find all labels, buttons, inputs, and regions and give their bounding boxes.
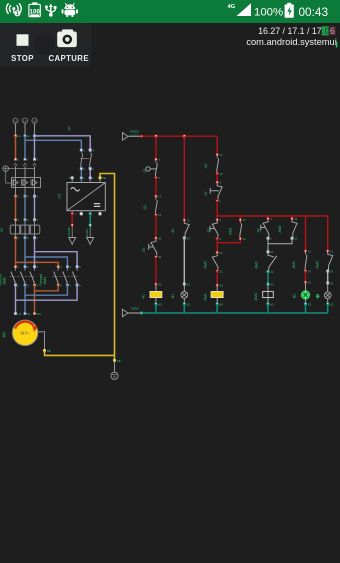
wire col1 seg1	[155, 136, 157, 159]
svg-text:A1: A1	[270, 282, 274, 286]
node K1.13b	[216, 153, 218, 155]
svg-text:1: 1	[83, 148, 85, 152]
node H1.X2	[183, 303, 185, 305]
svg-text:N: N	[69, 176, 71, 180]
svg-text:13: 13	[187, 218, 190, 222]
svg-text:-S4: -S4	[256, 228, 260, 233]
V1 pin PE	[99, 177, 101, 179]
svg-text:-Q1: -Q1	[143, 205, 147, 211]
svg-text:U1: U1	[18, 312, 22, 316]
node S1.4	[155, 177, 157, 179]
svg-text:X1: X1	[308, 281, 312, 285]
svg-text:2: 2	[83, 167, 85, 171]
node K1.A2	[155, 303, 157, 305]
wire L3 drop	[34, 136, 36, 160]
V1 pin nc1	[80, 213, 82, 215]
lamp H2 on	[292, 282, 310, 304]
node Q1 pin5	[33, 158, 35, 160]
junction bus1 col2	[183, 135, 186, 138]
node K1.14a	[183, 237, 185, 239]
status bar background	[0, 0, 340, 23]
svg-text:M3~: M3~	[21, 331, 30, 336]
svg-text:W1: W1	[37, 312, 42, 316]
node K1.14b	[216, 172, 218, 174]
svg-text:-: -	[92, 212, 93, 216]
svg-text:L2: L2	[27, 134, 30, 138]
node K1.13a	[183, 219, 185, 221]
contact KM2 seal-in	[278, 220, 297, 237]
node bus4 start	[140, 312, 142, 314]
node Q2 pin4	[89, 167, 91, 169]
node PE.1	[113, 359, 115, 361]
fuse F1	[0, 220, 40, 238]
node S2.3	[216, 181, 218, 183]
contact KM1 seal-in	[228, 221, 241, 238]
wire col3 seg1	[216, 174, 218, 183]
wire to F1 p3	[34, 196, 36, 220]
svg-text:-K1: -K1	[171, 228, 175, 233]
svg-text:L1: L1	[18, 134, 21, 138]
svg-text:X2: X2	[330, 302, 334, 306]
V1 pin N	[71, 177, 73, 179]
wire col2 seg2	[183, 238, 185, 284]
svg-text:-Q2: -Q2	[67, 126, 71, 131]
V1 pin L+	[71, 213, 73, 215]
node Q2 pin2	[80, 167, 82, 169]
node KM2 out2	[14, 284, 16, 286]
wire col3 to bus4	[216, 304, 218, 313]
svg-text:13: 13	[308, 249, 311, 253]
wire L2 drop	[24, 136, 26, 160]
svg-text:13: 13	[158, 195, 161, 199]
wire to F1 p1	[15, 196, 17, 220]
wire bus1 24VDC	[142, 135, 217, 137]
link arrow symbol plus	[67, 226, 76, 244]
svg-text:L: L	[83, 176, 85, 180]
wire bus3 seal-in	[217, 239, 240, 243]
node KM2.13	[291, 217, 293, 219]
ground electrode	[111, 362, 118, 379]
node KM1 in1	[57, 266, 59, 268]
node 6	[33, 195, 35, 197]
breaker Q1 handle	[3, 166, 35, 183]
svg-text:21: 21	[219, 251, 223, 255]
svg-text:-K1: -K1	[142, 294, 146, 299]
svg-text:X1: X1	[187, 282, 191, 286]
svg-text:5: 5	[37, 265, 39, 269]
node KM2.A1	[267, 283, 269, 285]
hotspot icon	[6, 4, 21, 14]
V1 bottom pin stubs	[72, 211, 100, 214]
wire motor U purple	[16, 285, 78, 314]
node Q1 pin1	[14, 158, 16, 160]
svg-text:-S3: -S3	[207, 228, 211, 233]
node K1.A1	[155, 283, 157, 285]
link arrow 0VDC	[89, 214, 91, 225]
svg-text:5: 5	[79, 265, 81, 269]
svg-text:+: +	[74, 212, 76, 216]
svg-text:A2: A2	[270, 302, 274, 306]
svg-text:PE: PE	[117, 359, 121, 363]
rectifier V1	[67, 183, 105, 211]
node KM2 in3	[24, 266, 26, 268]
contact KM1 aux2	[292, 252, 307, 270]
svg-text:2: 2	[18, 283, 20, 287]
svg-text:-KM1: -KM1	[254, 261, 258, 269]
node KM2.A2	[267, 303, 269, 305]
node Q1.14	[155, 214, 157, 216]
link arrow source 24VDC	[122, 129, 140, 140]
stop button square	[17, 34, 29, 46]
button S2 start	[204, 184, 222, 200]
overlay fps/systemui text	[0, 0, 340, 60]
node KM2.22	[216, 270, 218, 272]
battery-100 icon	[29, 2, 41, 16]
svg-text:4: 4	[219, 237, 221, 241]
contactor KM2 poles	[10, 268, 37, 283]
node KM1 in3	[66, 266, 68, 268]
wire to F1 p2	[24, 196, 26, 220]
svg-text:95: 95	[158, 236, 161, 240]
wire col3 seg2	[216, 201, 218, 220]
svg-text:-V1: -V1	[58, 194, 62, 200]
node F2.95	[155, 237, 157, 239]
svg-text:-H1: -H1	[171, 294, 175, 299]
svg-text:-KM2: -KM2	[254, 293, 258, 301]
svg-text:V1: V1	[27, 312, 31, 316]
node KM2 out4	[24, 284, 26, 286]
lamp H3	[316, 283, 331, 304]
node F2.96	[155, 256, 157, 258]
wire col5 seg1	[305, 216, 307, 251]
wire bus4 0VDC	[142, 312, 328, 314]
node KM1 in5	[76, 266, 78, 268]
svg-text:PE: PE	[102, 176, 106, 180]
wire col4 stub	[267, 216, 269, 219]
svg-text:1: 1	[270, 217, 272, 221]
svg-text:2: 2	[60, 283, 62, 287]
wire col5 to bus4	[305, 304, 307, 313]
wire motor PE	[38, 332, 45, 349]
node KM2.14	[291, 237, 293, 239]
node S2.4	[216, 200, 218, 202]
svg-text:1: 1	[18, 265, 20, 269]
svg-text:6: 6	[79, 283, 81, 287]
wire L2 branch	[25, 238, 67, 267]
node Q1 pin3	[24, 158, 26, 160]
node F1 pin3	[24, 219, 26, 221]
wire switch to V1 b	[89, 169, 91, 178]
node KM1.34	[304, 270, 306, 272]
wire col6 seg2	[327, 271, 329, 283]
node U1	[14, 312, 16, 314]
button S4 reverse	[256, 220, 268, 237]
button S3 stop2	[207, 221, 218, 238]
svg-text:4: 4	[92, 167, 94, 171]
svg-text:1: 1	[60, 265, 62, 269]
svg-text:14: 14	[294, 237, 297, 241]
V1 pin L1	[80, 177, 82, 179]
wire col1 to bus4	[155, 304, 157, 313]
svg-text:96: 96	[158, 255, 161, 259]
svg-text:-S2: -S2	[204, 191, 208, 196]
svg-text:-S1: -S1	[143, 168, 147, 173]
junction bus2 col3	[216, 219, 218, 221]
svg-text:22: 22	[219, 270, 223, 274]
svg-text:-F1: -F1	[0, 227, 4, 232]
wire col2 seg1	[183, 136, 185, 220]
supply terminal L3	[32, 118, 37, 134]
battery charging icon	[285, 3, 294, 18]
svg-text:A1: A1	[158, 282, 162, 286]
coil K1	[142, 284, 162, 304]
link arrow 24VDC	[71, 214, 73, 225]
wire L1 branch	[16, 238, 59, 267]
android debug icon	[62, 4, 78, 18]
switch Q2	[67, 126, 92, 168]
recorder panel	[0, 23, 91, 66]
svg-text:-F2: -F2	[142, 247, 146, 252]
wire col5 seg2	[305, 271, 307, 282]
wire motor W orange	[35, 285, 59, 314]
contact KM1 aux NC	[254, 253, 276, 270]
svg-text:4: 4	[27, 283, 29, 287]
svg-text:A1: A1	[219, 284, 223, 288]
wire col1 seg3	[155, 215, 157, 238]
svg-text:6: 6	[37, 195, 39, 199]
node KM2.21	[216, 251, 218, 253]
wire col4 seg3	[267, 272, 269, 285]
svg-text:13: 13	[219, 153, 222, 157]
node KM2 in1	[14, 266, 16, 268]
svg-text:13: 13	[330, 249, 333, 253]
svg-text:PE: PE	[47, 349, 51, 353]
wire col3 seg3	[216, 243, 218, 253]
node KM1.13	[239, 219, 241, 221]
node L2	[24, 135, 26, 137]
node L3	[33, 135, 35, 137]
svg-text:0VDC: 0VDC	[85, 228, 89, 237]
node F1 pin4	[24, 237, 26, 239]
svg-text:A2: A2	[219, 302, 223, 306]
wire L1 drop	[15, 136, 17, 160]
node bus1 start	[141, 135, 143, 137]
svg-text:X1: X1	[330, 281, 334, 285]
svg-text:A2: A2	[158, 302, 162, 306]
node KM1 out4	[66, 284, 68, 286]
svg-text:X2: X2	[308, 302, 312, 306]
node KM1.A2	[216, 303, 218, 305]
svg-text:-KM1: -KM1	[228, 227, 232, 235]
usb icon	[45, 4, 57, 17]
wire col3b stub	[239, 216, 241, 220]
V1 pin L2	[89, 177, 91, 179]
svg-text:3: 3	[27, 265, 29, 269]
svg-text:4: 4	[69, 283, 71, 287]
junction bus1 col1	[155, 135, 158, 138]
svg-text:22: 22	[270, 270, 274, 274]
svg-text:14: 14	[158, 213, 161, 217]
svg-text:14: 14	[187, 236, 190, 240]
node F1 pin1	[14, 219, 16, 221]
svg-text:5: 5	[37, 218, 39, 222]
wire bus1 corner to col3	[216, 136, 218, 154]
svg-text:+24V: +24V	[132, 133, 139, 137]
pressed circle	[34, 34, 55, 55]
svg-text:3: 3	[69, 265, 71, 269]
contact K1 aux1	[171, 221, 190, 237]
wire L3 branch	[35, 238, 78, 267]
node H2.X1	[304, 281, 306, 283]
contact K1 aux2	[204, 156, 218, 173]
node KM1 out6	[76, 284, 78, 286]
node 2	[14, 195, 16, 197]
wire L3 to switch	[35, 136, 91, 150]
svg-text:14: 14	[330, 269, 333, 273]
node 0VDC	[89, 224, 91, 226]
node F1 pin6	[33, 237, 35, 239]
contactor KM1 poles	[52, 268, 78, 283]
link arrow source 0VDC	[122, 306, 140, 316]
svg-text:2: 2	[18, 195, 20, 199]
node KM2 out6	[33, 284, 35, 286]
node Q2 pin3	[89, 149, 91, 151]
svg-text:4: 4	[27, 195, 29, 199]
svg-text:13: 13	[294, 217, 297, 221]
svg-text:0VDC: 0VDC	[131, 306, 140, 310]
V1 top pin stubs	[72, 178, 100, 183]
motor M1	[12, 320, 37, 345]
node H3.X1	[327, 282, 329, 284]
V1 pin L-	[89, 213, 91, 215]
wire col4 seg2	[267, 244, 269, 252]
svg-text:24VDC: 24VDC	[67, 226, 71, 237]
node KM1.21	[267, 251, 269, 253]
svg-text:-M1: -M1	[2, 332, 6, 338]
svg-text:4: 4	[27, 236, 29, 240]
node S3.4	[216, 238, 218, 240]
coil KM1	[203, 285, 223, 304]
supply terminal L1	[13, 118, 18, 134]
svg-text:1: 1	[18, 158, 20, 162]
node Q2 pin1	[80, 149, 82, 151]
motor rotation arrow	[15, 322, 38, 332]
svg-text:-K1: -K1	[204, 163, 208, 168]
svg-text:L: L	[92, 176, 94, 180]
switch S1	[143, 161, 157, 177]
capture camera icon	[57, 29, 77, 47]
wire col1 seg2	[155, 178, 157, 197]
V1 pin nc2	[99, 213, 101, 215]
svg-text:3: 3	[92, 148, 94, 152]
wire switch to V1 a	[80, 169, 82, 178]
contact KM2 aux2	[316, 252, 333, 270]
node KM2 in5	[33, 266, 35, 268]
node L1	[14, 135, 16, 137]
svg-text:4: 4	[219, 199, 221, 203]
svg-text:14: 14	[308, 269, 311, 273]
wire L2 to switch	[25, 140, 81, 150]
wire col4b stub	[291, 216, 293, 219]
coil KM2	[254, 284, 273, 304]
svg-text:14: 14	[219, 172, 222, 176]
svg-text:3: 3	[158, 158, 160, 162]
contact KM2 aux NC	[204, 254, 218, 270]
node KM1.A1	[216, 284, 218, 286]
wire PE yellow	[45, 174, 115, 361]
wire bus2	[217, 216, 328, 251]
test point marker	[316, 294, 320, 298]
supply terminal L2	[22, 118, 27, 134]
svg-text:-KM2: -KM2	[316, 261, 320, 269]
svg-text:-KM2: -KM2	[278, 225, 282, 233]
svg-text:-KM2: -KM2	[204, 261, 208, 269]
node F1 pin2	[14, 237, 16, 239]
node H3.X2	[327, 303, 329, 305]
node S4.2	[267, 237, 269, 239]
wire col2 to bus4	[183, 304, 185, 313]
svg-text:21: 21	[270, 250, 274, 254]
wire col6 to bus4	[327, 304, 329, 313]
lamp H1	[171, 284, 188, 304]
svg-text:6: 6	[37, 236, 39, 240]
node W1	[33, 312, 35, 314]
svg-text:13: 13	[243, 218, 246, 222]
breaker Q1	[12, 163, 41, 196]
svg-text:-H2: -H2	[292, 294, 296, 299]
node KM1.22	[267, 270, 269, 272]
wire motor V blue	[25, 285, 67, 314]
node KM2.34	[327, 270, 329, 272]
wire col1 seg4	[155, 257, 157, 284]
node KM2.33	[327, 250, 329, 252]
svg-text:-KM1: -KM1	[203, 293, 207, 301]
wire col4 join	[268, 238, 292, 244]
svg-text:-KM2: -KM2	[3, 277, 7, 286]
status bar icons svg	[0, 0, 340, 23]
svg-text:3: 3	[219, 181, 221, 185]
node KM1.14	[239, 238, 241, 240]
svg-text:14: 14	[243, 237, 246, 241]
node H2.X2	[304, 303, 306, 305]
svg-text:X2: X2	[187, 302, 191, 306]
contact Q1 aux	[143, 197, 157, 213]
link arrow symbol minus	[85, 227, 94, 245]
svg-text:3: 3	[219, 218, 221, 222]
svg-text:3: 3	[27, 218, 29, 222]
node 24VDC	[71, 224, 73, 226]
node KM1 out2	[57, 284, 59, 286]
svg-text:2: 2	[270, 237, 272, 241]
svg-text:-KM1: -KM1	[292, 261, 296, 269]
svg-text:-KM1: -KM1	[43, 277, 47, 286]
node S4.1	[267, 217, 269, 219]
svg-text:5: 5	[37, 158, 39, 162]
node F1 pin5	[33, 219, 35, 221]
node KM1.33	[304, 250, 306, 252]
svg-text:1: 1	[18, 218, 20, 222]
svg-text:4: 4	[158, 176, 160, 180]
wire col3 seg4	[216, 271, 218, 285]
node Q1.13	[155, 195, 157, 197]
contact F2 overload	[142, 239, 157, 256]
node V1	[24, 312, 26, 314]
svg-text:3: 3	[27, 158, 29, 162]
svg-text:2: 2	[18, 236, 20, 240]
node 4	[24, 195, 26, 197]
wire col4 to bus4	[267, 304, 269, 313]
node S1.3	[155, 158, 157, 160]
